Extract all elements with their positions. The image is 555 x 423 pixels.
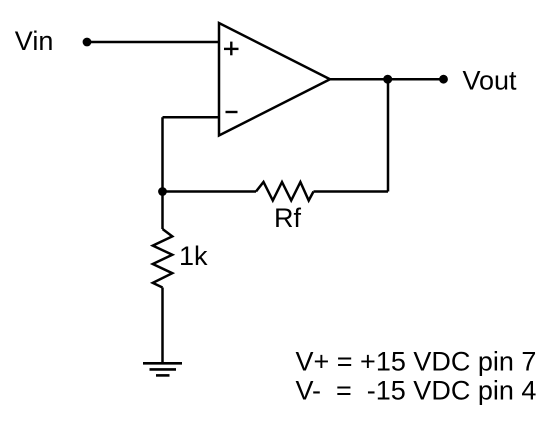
pin label + (noninverting): [224, 42, 239, 56]
node Vin terminal dot: [83, 38, 92, 47]
wire R1 to ground: [161, 288, 164, 364]
ground: [143, 363, 182, 375]
svg-text:V+ = +15 VDC pin 7: V+ = +15 VDC pin 7: [296, 346, 537, 376]
svg-text:Vin: Vin: [15, 26, 54, 56]
node feedback junction dot: [158, 187, 167, 196]
svg-text:V- = -15 VDC pin 4: V- = -15 VDC pin 4: [296, 376, 537, 406]
wire node to resistor R1: [161, 192, 164, 230]
resistor Rf: [256, 182, 314, 201]
wire feedback right vertical: [387, 79, 390, 191]
wire Vin to op-amp noninverting input: [87, 41, 219, 44]
wire node to Rf: [163, 190, 257, 193]
op-amp U1: [219, 23, 330, 136]
pin label - (inverting): [226, 111, 238, 113]
svg-text:Vout: Vout: [463, 65, 518, 95]
node Vout terminal dot: [439, 75, 448, 84]
node output junction dot: [383, 75, 392, 84]
wire inverting input: [163, 116, 220, 119]
wire op-amp output: [330, 78, 444, 81]
wire Rf to right vertical: [314, 190, 389, 193]
svg-text:Rf: Rf: [274, 203, 301, 233]
wire feedback left vertical: [161, 117, 164, 191]
svg-text:1k: 1k: [179, 241, 208, 271]
resistor R1 1k: [153, 229, 173, 288]
